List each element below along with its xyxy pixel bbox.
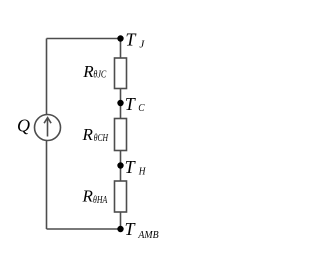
svg-text:C: C bbox=[138, 103, 145, 114]
svg-text:T: T bbox=[125, 219, 137, 239]
svg-text:T: T bbox=[125, 29, 137, 49]
svg-text:T: T bbox=[125, 157, 137, 177]
svg-text:H: H bbox=[138, 167, 147, 178]
svg-text:T: T bbox=[125, 94, 137, 114]
svg-text:R: R bbox=[82, 187, 94, 206]
svg-text:R: R bbox=[82, 125, 94, 144]
svg-text:θHA: θHA bbox=[93, 194, 107, 206]
svg-text:θJC: θJC bbox=[93, 68, 106, 80]
svg-text:AMB: AMB bbox=[137, 230, 159, 241]
svg-text:J: J bbox=[139, 40, 145, 51]
svg-text:Q: Q bbox=[17, 116, 30, 136]
svg-text:θCH: θCH bbox=[94, 132, 109, 144]
